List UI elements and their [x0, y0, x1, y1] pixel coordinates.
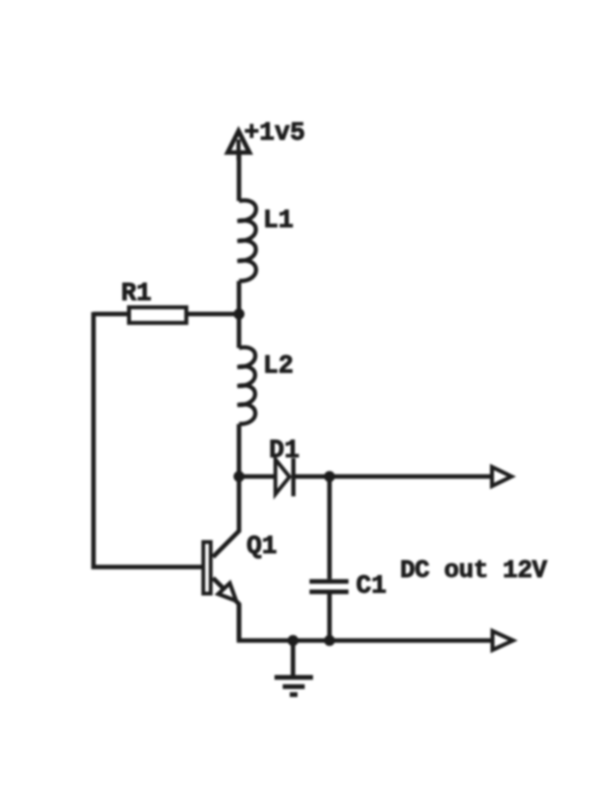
svg-text:L1: L1 [263, 206, 294, 235]
svg-text:R1: R1 [121, 279, 152, 308]
svg-text:DC out 12V: DC out 12V [400, 556, 548, 585]
svg-text:L2: L2 [263, 352, 294, 381]
svg-text:C1: C1 [356, 572, 387, 601]
svg-text:Q1: Q1 [247, 532, 278, 561]
svg-text:+1v5: +1v5 [244, 119, 305, 148]
svg-text:D1: D1 [269, 436, 300, 465]
